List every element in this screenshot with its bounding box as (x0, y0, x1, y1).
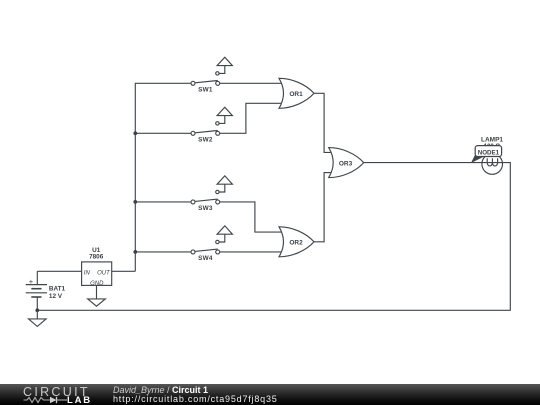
lamp LAMP1 body (482, 154, 503, 175)
wire: SW3 feed from bus (135, 201, 191, 203)
or-gate OR3 (329, 148, 364, 178)
svg-text:OR2: OR2 (289, 240, 303, 247)
or-gate OR1 (279, 78, 314, 108)
wire: OR1 output to OR3 input A (314, 93, 333, 152)
wire: battery + to U1 IN (37, 271, 81, 284)
wire: SW2 output to OR1 input B (220, 103, 284, 133)
svg-text:7806: 7806 (89, 254, 104, 261)
svg-text:SW1: SW1 (198, 87, 213, 94)
credit text (113, 386, 278, 404)
svg-text:+: + (29, 277, 34, 286)
ground: U1 GND symbol (88, 299, 106, 306)
voltage regulator U1 box (82, 262, 112, 286)
wire: 6V bus from U1 OUT up left side to SW1 (135, 83, 191, 271)
wire: SW1 output to OR1 input A (220, 82, 284, 84)
logo resistor-diode artwork (24, 398, 51, 403)
svg-text:GND: GND (90, 281, 104, 287)
lamp LAMP1 filament (487, 158, 497, 166)
junction: bus at SW4 (133, 250, 137, 254)
battery BAT1 (26, 285, 47, 297)
junction: bus at SW3 (133, 200, 137, 204)
wire: SW2 feed from bus (135, 132, 191, 134)
wire: SW4 feed from bus (135, 251, 191, 253)
node NODE1 flag (475, 146, 501, 157)
wire: U1 GND pin (96, 285, 98, 299)
wire: U1 OUT to bus (112, 270, 136, 272)
wire: SW4 output to OR2 input B (220, 251, 284, 253)
svg-text:OUT: OUT (97, 270, 111, 276)
junction: bus at SW2 (133, 131, 137, 135)
node NODE1 flag pointer (471, 155, 484, 163)
svg-text:BAT1: BAT1 (49, 286, 66, 293)
wire: OR3 output through LAMP1 to right rail and bottom return to battery (37, 163, 510, 311)
svg-text:SW4: SW4 (198, 255, 213, 262)
wire: SW3 output to OR2 input A (220, 202, 284, 232)
CircuitLab logo (23, 384, 90, 398)
junction: battery minus / return (35, 308, 39, 312)
switch SW4 (191, 226, 232, 254)
or-gate OR2 (279, 227, 314, 257)
footer bar (0, 384, 540, 405)
svg-text:OR1: OR1 (289, 91, 303, 98)
svg-text:IN: IN (84, 270, 91, 276)
svg-text:LAMP1: LAMP1 (481, 137, 503, 144)
switch SW3 (191, 176, 232, 204)
ground: battery GND symbol (29, 319, 47, 327)
switch SW2 (191, 107, 232, 135)
wire: battery - to ground and bottom return (36, 297, 38, 319)
svg-text:12 V: 12 V (49, 293, 63, 300)
svg-text:OR3: OR3 (339, 160, 353, 167)
svg-text:SW3: SW3 (198, 205, 213, 212)
svg-text:SW2: SW2 (198, 137, 213, 144)
wire: OR2 output to OR3 input B (314, 173, 333, 242)
switch SW1 (191, 57, 232, 85)
svg-text:NODE1: NODE1 (478, 149, 500, 156)
